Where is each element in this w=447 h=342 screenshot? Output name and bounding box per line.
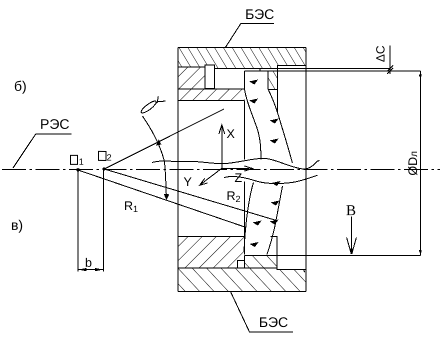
Y axis [201,168,222,184]
svg-text:1: 1 [79,157,84,167]
left wall and shelf hatch [178,67,244,101]
P1 vertical extension [77,170,79,272]
bottom seat hatch [178,236,245,268]
retainer pin [205,65,215,89]
lens mark arrow 3 [270,119,279,124]
flange rear face line [215,68,390,70]
lens mark arrow 1 [249,80,258,85]
flange step [278,65,306,68]
top flange hatch [178,48,306,69]
dia-D arrow bottom [419,250,422,255]
housing top edge [178,47,306,49]
square glyph P1 [71,151,107,164]
lens edge extension line [245,70,421,72]
seat top line left [178,235,245,237]
svg-text:2: 2 [107,153,112,163]
Z axis [222,168,250,170]
top pocket bottom [268,88,277,90]
filled arrowheads [76,71,421,272]
svg-text:Z: Z [234,171,242,185]
b arrow left [78,268,87,271]
bottom pocket hatch [245,256,278,268]
optical axis (dash-dot centerline) [2,169,440,171]
lens surface R2 lower [267,186,283,254]
svg-text:b: b [85,256,92,270]
gamma arc arrowhead lower [164,194,170,200]
lens mark arrow 8 [270,220,279,225]
P2 point [102,167,105,170]
svg-text:б): б) [14,78,27,94]
seat top line right [270,235,277,237]
svg-text:РЭС: РЭС [40,116,70,132]
housing outline left edge [177,48,179,292]
bore edge lower [243,182,245,255]
housing bottom edge [178,291,306,293]
lens surface R1 lower [244,183,253,252]
lens surface R2 upper [268,89,292,163]
lens rim corner edge [259,69,261,71]
corner tick at notch [302,270,305,272]
break line upper [152,158,320,169]
svg-text:Y: Y [183,175,192,189]
lens mark arrow 9 [250,242,259,247]
tilted lens axis line from P2 [104,109,224,169]
delta-C tick lower [387,68,393,74]
bore edge upper [243,101,245,160]
svg-text:ØDл: ØDл [406,151,420,176]
seat flange boundary [178,267,277,269]
shelf top line [178,88,244,90]
gamma arc arrowhead upper [156,140,162,146]
dia-D arrow top [419,71,422,76]
radius line R1 from P1 [78,170,246,228]
b arrow right [95,268,104,271]
top pocket hatch [268,71,277,89]
lens mark arrow 6 [271,201,280,206]
delta-C tick upper [387,66,393,72]
svg-text:в): в) [11,217,23,233]
leader RES [13,134,71,168]
gamma symbol [140,97,166,115]
X axis [221,126,223,168]
lens bottom extension line [245,255,421,257]
b dimension line [78,269,104,271]
radius line R2 from P2 [104,169,276,221]
seat step staircase [238,256,245,268]
svg-text:В: В [346,203,356,219]
P2 vertical extension [103,169,105,272]
lens mark arrow 2 [249,99,258,104]
gamma angle arc [143,116,167,200]
B view arrow line [351,217,353,255]
svg-text:БЭС: БЭС [259,314,288,330]
lens mark arrow 4 [270,139,279,144]
lens surface R1 upper [244,71,261,160]
dia-D dimension line [420,71,422,256]
break line lower [224,175,318,183]
delta-C dimension line [389,45,391,74]
lens mark arrow 7 [253,221,262,226]
bottom flange hatch [178,268,306,292]
top pocket right edge [277,65,279,113]
lens mark arrow 5 [272,181,281,186]
leader BES bottom [231,292,294,332]
svg-text:X: X [227,127,236,141]
svg-text:БЭС: БЭС [245,6,274,22]
leader BES top [225,24,274,48]
B arrow tip fill [350,249,354,255]
P1 point [76,168,79,171]
bottom notch edge [277,236,306,270]
svg-text:ΔС: ΔС [374,45,388,62]
shelf bottom line [178,100,244,102]
lens rim edge upper [267,71,269,90]
flange bottom line [178,66,205,68]
housing front face [305,48,307,292]
